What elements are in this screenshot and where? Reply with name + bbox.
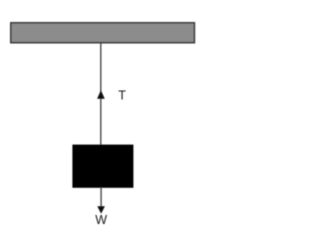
- weight arrowhead (down): [97, 206, 105, 213]
- wire (string from ceiling to block): [100, 44, 102, 146]
- tension arrowhead (up): [97, 90, 105, 99]
- wire (string below block): [100, 188, 102, 209]
- svg-text:W: W: [95, 213, 107, 227]
- mass block: [72, 145, 133, 188]
- ceiling bar: [11, 23, 195, 43]
- svg-text:T: T: [118, 89, 126, 103]
